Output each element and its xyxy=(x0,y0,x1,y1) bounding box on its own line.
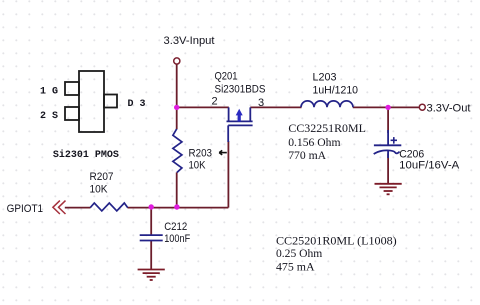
svg-text:10K: 10K xyxy=(189,159,207,171)
wire stub above R203 xyxy=(176,107,178,129)
svg-text:770 mA: 770 mA xyxy=(288,148,326,162)
svg-text:1 G: 1 G xyxy=(40,87,58,98)
junction dot at output rail xyxy=(385,105,390,110)
plus sign C206 xyxy=(391,137,397,144)
terminal circle 3.3V-Input xyxy=(174,58,180,64)
Q201 arrow xyxy=(236,109,243,122)
wire junction down to C212 xyxy=(150,208,152,235)
package pin 3 (D) xyxy=(104,95,117,108)
wire Q201 drain to L203 xyxy=(250,106,301,108)
package outline Si2301 SOT-23 body xyxy=(65,71,117,132)
svg-text:Si2301BDS: Si2301BDS xyxy=(215,84,266,96)
wire port to R207 xyxy=(65,207,91,209)
svg-text:L203: L203 xyxy=(313,72,337,84)
capacitor C206 (polarized) xyxy=(374,130,402,158)
svg-text:C212: C212 xyxy=(164,221,187,233)
svg-text:1uH/1210: 1uH/1210 xyxy=(313,85,359,97)
svg-text:0.156 Ohm: 0.156 Ohm xyxy=(288,135,341,149)
wire gate vertical xyxy=(227,141,229,208)
resistor R203 xyxy=(173,129,182,173)
svg-text:R207: R207 xyxy=(90,171,114,183)
wire L203 to 3.3V-Out terminal xyxy=(353,106,419,108)
port GPIOT1 chevron xyxy=(53,201,66,214)
svg-text:D 3: D 3 xyxy=(128,99,146,110)
ground symbol at C206 xyxy=(375,184,402,195)
pin number 1 (rotated) drawn as arrow xyxy=(219,150,227,155)
wire R207 to gate corner xyxy=(128,207,229,209)
junction dot at C212 xyxy=(149,204,154,209)
svg-text:Si2301 PMOS: Si2301 PMOS xyxy=(53,149,119,161)
package pin 1 (G) xyxy=(65,82,79,95)
wire input terminal to junction xyxy=(176,64,178,107)
transistor Q201 PMOS symbol xyxy=(227,107,253,142)
svg-text:10uF/16V-A: 10uF/16V-A xyxy=(399,159,460,171)
resistor R207 xyxy=(90,203,127,211)
wire R203 bottom to bottom rail xyxy=(176,172,178,207)
svg-text:3.3V-Input: 3.3V-Input xyxy=(164,35,215,47)
svg-text:GPIOT1: GPIOT1 xyxy=(7,203,44,215)
svg-text:3: 3 xyxy=(258,97,264,109)
inductor L203 xyxy=(301,101,353,107)
svg-text:R203: R203 xyxy=(189,148,213,160)
svg-text:Q201: Q201 xyxy=(215,71,238,83)
wire output junction down to C206 xyxy=(387,107,389,133)
terminal circle 3.3V-Out xyxy=(419,104,425,110)
wire junction to Q201 source xyxy=(177,106,229,108)
wire C206 to ground xyxy=(387,154,389,184)
wire C212 to ground xyxy=(150,241,152,269)
svg-text:3.3V-Out: 3.3V-Out xyxy=(427,103,471,115)
svg-text:475 mA: 475 mA xyxy=(276,259,315,273)
svg-text:100nF: 100nF xyxy=(164,233,190,245)
svg-text:2 S: 2 S xyxy=(40,111,58,122)
junction dot at input rail xyxy=(174,105,179,110)
junction dot at R203 bottom xyxy=(174,204,179,209)
svg-text:2: 2 xyxy=(212,96,218,108)
svg-text:CC32251R0ML: CC32251R0ML xyxy=(288,121,366,135)
svg-text:10K: 10K xyxy=(90,184,109,196)
package pin 2 (S) xyxy=(65,107,79,120)
ground symbol at C212 xyxy=(138,270,165,281)
svg-text:0.25 Ohm: 0.25 Ohm xyxy=(276,246,323,260)
capacitor C212 xyxy=(140,235,163,240)
